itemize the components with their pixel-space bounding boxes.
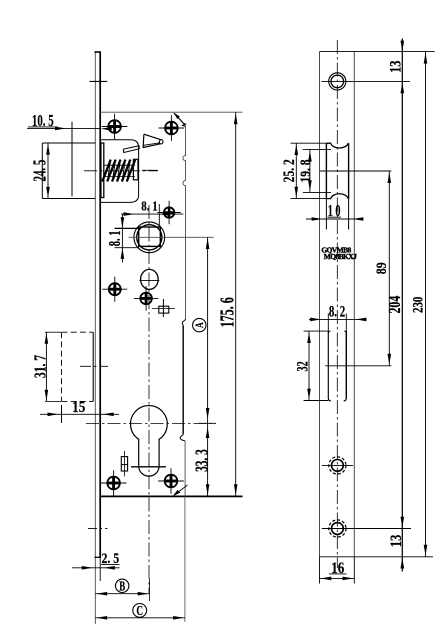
dim 8.1 vertical text	[107, 231, 125, 247]
middle hole centerline	[322, 464, 353, 466]
case bottom edge	[100, 495, 242, 497]
top mounting hole	[329, 73, 346, 90]
dim 89 extension latch center	[320, 170, 392, 172]
svg-text:175. 6: 175. 6	[217, 297, 239, 327]
faceplate side view front line	[94, 52, 96, 624]
cylinder slot right edge	[345, 314, 347, 399]
dim 32 line	[307, 331, 311, 400]
dim 15 text	[72, 399, 85, 416]
faceplate bottom edge	[95, 556, 102, 558]
dim 230 text	[409, 296, 426, 313]
latch housing	[101, 140, 139, 203]
dim 175.6 text	[217, 297, 239, 327]
dim 25.2 line	[295, 143, 299, 198]
middle mounting hole	[329, 457, 346, 474]
screw bottom-left	[101, 470, 127, 496]
latch cutout top edge	[326, 143, 348, 148]
dim 89 text	[373, 262, 390, 274]
svg-text:A: A	[194, 322, 207, 328]
dim 16 line	[320, 557, 355, 584]
dim 8.1 vertical line	[115, 214, 140, 262]
dim A and 33.3 line	[199, 237, 217, 496]
dim 16 text	[331, 560, 344, 577]
euro profile cylinder hole	[131, 406, 168, 477]
case back edge with notches	[180, 126, 185, 496]
svg-text:2. 5: 2. 5	[101, 550, 119, 567]
dim 31.7 line	[45, 332, 61, 401]
dim B line	[95, 579, 149, 602]
dim 8.1 horizontal text	[141, 199, 157, 214]
latch lever bar	[123, 146, 139, 153]
latch cutout left edge	[325, 143, 327, 198]
dim 8.2 line	[309, 318, 367, 322]
centerline tick slot center	[80, 365, 108, 367]
follower inner circle	[137, 225, 162, 250]
svg-text:24. 5: 24. 5	[31, 160, 50, 182]
dim 19.8 text	[296, 159, 313, 182]
faceplate back extension for dim 2.5	[99, 558, 101, 581]
case top edge	[100, 111, 242, 113]
spring rails	[104, 165, 136, 176]
dim 230 line	[424, 52, 428, 557]
small square with cross	[152, 299, 175, 317]
screw right of follower	[157, 201, 180, 224]
svg-text:8. 1: 8. 1	[141, 199, 157, 214]
screw top-right	[159, 115, 185, 141]
cylinder screw centerline	[131, 466, 166, 468]
screw below oval	[134, 286, 159, 311]
svg-text:31. 7: 31. 7	[31, 355, 50, 378]
svg-text:13: 13	[387, 60, 405, 72]
latch bolt plate bar	[101, 143, 104, 198]
case top-back break line	[174, 113, 186, 127]
dim 31.7 text	[31, 355, 50, 378]
dim 8.2 text	[329, 303, 345, 321]
cylinder slot rounded ends	[328, 331, 346, 401]
faceplate vertical centerline	[336, 40, 338, 568]
dim 204 and 13 line	[401, 39, 405, 572]
svg-text:32: 32	[293, 361, 311, 371]
centerline stub right of housing	[142, 169, 158, 171]
dim 175.6 line	[234, 112, 238, 496]
spring	[102, 160, 135, 182]
lower mounting hole	[329, 520, 346, 537]
oval hole below follower	[139, 269, 159, 289]
latch cutout right edge	[348, 143, 350, 198]
dim 24.5 line	[46, 143, 50, 199]
svg-text:16: 16	[331, 560, 344, 577]
datum B circle	[116, 579, 129, 594]
screw mid-left	[102, 277, 127, 302]
faceplate top edge and extension	[320, 51, 435, 53]
svg-text:230: 230	[409, 296, 426, 313]
faceplate front left edge	[319, 52, 321, 557]
faceplate bottom edge and extension	[320, 556, 434, 558]
screw bottom-right	[158, 468, 184, 494]
dim 10 line	[306, 199, 363, 230]
dim 15 line	[40, 405, 119, 423]
centerline tick at top mounting hole	[90, 80, 108, 82]
dim C line	[95, 616, 185, 620]
dim 10 text	[328, 202, 342, 220]
cylinder slot left edge	[327, 314, 329, 399]
cutout extension lines	[291, 143, 332, 198]
vertical centerline of lock case	[148, 205, 150, 593]
svg-text:89: 89	[373, 262, 390, 274]
small link symbol	[121, 451, 127, 477]
latch projection box	[42, 143, 95, 199]
dim 25.2 text	[281, 159, 298, 182]
dim 10.5 line	[27, 122, 112, 197]
dim 19.8 line	[308, 149, 312, 192]
svg-text:19. 8: 19. 8	[296, 159, 313, 182]
faceplate side view back line	[99, 52, 101, 558]
dim 13 bottom text	[388, 535, 406, 547]
svg-text:8. 2: 8. 2	[329, 303, 345, 321]
brand stamp	[321, 246, 357, 262]
spring seat	[133, 159, 138, 180]
lower hole centerline	[322, 528, 411, 530]
screw top-left	[102, 114, 128, 140]
dim 89 extension slot center	[325, 365, 391, 367]
dim 33.3 text	[193, 449, 212, 472]
datum A circle	[193, 318, 207, 331]
latch centerline	[84, 170, 158, 172]
dim 204 text	[386, 296, 404, 314]
faceplate front right edge	[353, 52, 355, 557]
follower square hole	[139, 227, 161, 246]
dim 2.5 line	[72, 565, 120, 570]
latch bolt head wedge	[143, 134, 163, 147]
dim 89 line	[388, 171, 392, 366]
centerline tick lower mounting hole	[88, 528, 108, 530]
svg-text:C: C	[136, 602, 143, 619]
svg-text:MQ8BKXJ: MQ8BKXJ	[324, 252, 357, 261]
dim 32 extension lines	[304, 331, 329, 400]
follower outer circle	[134, 222, 165, 253]
dim 10.5 text	[32, 113, 54, 131]
cylinder centerline	[86, 422, 216, 424]
svg-text:204: 204	[386, 296, 404, 314]
follower horizontal centerline	[129, 236, 214, 238]
svg-text:33. 3: 33. 3	[193, 449, 212, 472]
top hole centerline	[322, 80, 411, 82]
dim 24.5 text	[31, 160, 50, 182]
dim 8.1 horizontal line	[121, 204, 184, 227]
case back extension for dim C	[184, 496, 186, 622]
faceplate top edge	[95, 51, 102, 53]
svg-text:13: 13	[388, 535, 406, 547]
datum C circle	[133, 602, 147, 619]
deadbolt dashed box	[62, 332, 94, 401]
svg-text:B: B	[119, 580, 125, 594]
latch cutout bottom edge	[326, 194, 348, 199]
dim 32 text	[293, 361, 311, 371]
leader arrow at case bottom	[173, 485, 188, 496]
dim 2.5 text	[101, 550, 119, 567]
dim 13 top text	[387, 60, 405, 72]
